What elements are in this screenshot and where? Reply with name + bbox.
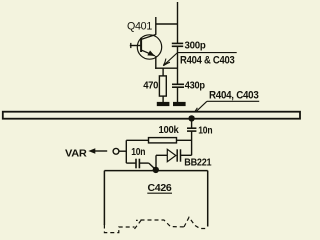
svg-text:10n: 10n [131,146,145,158]
wire 100k left lead [126,139,148,141]
wire 10n bottom vertical to cathode level [191,131,193,155]
junction dot on bus [188,115,194,121]
wire emitter horizontal to main line [155,67,177,69]
capacitor 430p plates [172,84,184,87]
svg-text:C426: C426 [148,182,172,194]
wire from terminal to tee [119,150,126,152]
wire main vertical mid [177,46,179,84]
wire 470 bottom lead [162,96,164,103]
svg-text:Q401: Q401 [127,20,152,32]
svg-text:R404 & C403: R404 & C403 [180,54,235,66]
arrow VAR pointing left [88,148,95,153]
ground bar under 470 [157,102,170,106]
junction dot on box top edge [153,167,159,173]
svg-text:470: 470 [143,80,158,92]
diode varactor BB221 [156,149,192,161]
ground bar under 430p [173,102,186,106]
svg-text:430p: 430p [185,79,205,91]
wire top horizontal collector to main line [156,23,178,25]
annotation leader R404 & C403 [163,53,236,66]
transistor Q401 body [130,35,162,60]
wire 10n top lead [191,118,193,128]
wire 430p bottom lead [177,87,179,103]
capacitor 300p plates [172,43,183,46]
svg-text:300p: 300p [185,40,206,52]
capacitor 10n series plates [136,159,139,169]
svg-text:100k: 100k [159,124,179,136]
bus bar rectangle [3,112,300,119]
svg-text:R404, C403: R404, C403 [209,90,259,102]
wire diagonal into junction [149,163,156,170]
underline of C426 [147,192,172,194]
wire emitter vertical [155,56,157,69]
resistor 470 body [159,76,166,96]
torn edge dashed bottom of box [104,217,207,232]
wire 100k right lead [177,139,192,141]
annotation leader R404, C403 [193,101,259,114]
resistor 100k body [149,138,177,143]
wire vertical tee [125,140,127,163]
svg-text:BB221: BB221 [184,157,211,169]
wire 470 top lead [162,68,164,76]
wire anode down to junction [155,155,157,170]
svg-text:VAR: VAR [65,148,87,160]
terminal circle VAR [113,148,119,154]
block C426 box top and sides [104,171,207,227]
wire series cap right lead [139,162,148,164]
svg-text:10n: 10n [198,124,212,136]
wire series cap left lead [126,162,135,164]
wire main vertical top [177,2,179,43]
capacitor 10n top plates [187,128,196,131]
wire collector stub vertical [155,17,157,35]
